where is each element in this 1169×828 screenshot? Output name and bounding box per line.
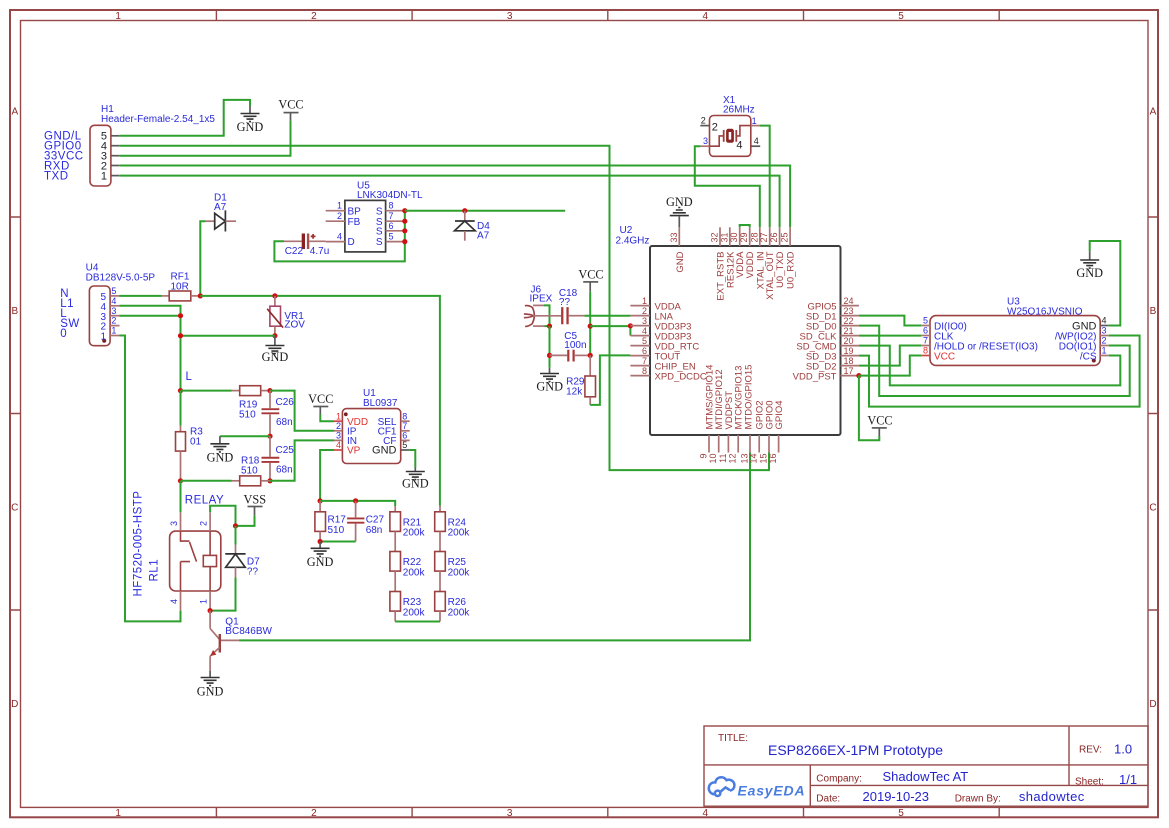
svg-text:23: 23 bbox=[844, 306, 854, 316]
U2 pin 33 GND bbox=[669, 227, 686, 272]
svg-text:3: 3 bbox=[169, 521, 179, 526]
svg-text:6: 6 bbox=[642, 346, 647, 356]
capacitor C25 68n bbox=[262, 436, 295, 481]
svg-text:30: 30 bbox=[729, 232, 739, 242]
ground GND (VR1) bbox=[262, 336, 289, 364]
power flag VCC (RF) bbox=[578, 268, 603, 292]
junction VR1 bottom bbox=[272, 333, 277, 338]
svg-text:7: 7 bbox=[642, 356, 647, 366]
svg-text:22: 22 bbox=[844, 316, 854, 326]
U3 pin 2 DO(IO1) bbox=[1059, 336, 1109, 353]
junction VCC VDD3P3 bbox=[588, 324, 593, 329]
svg-text:C22: C22 bbox=[285, 246, 304, 257]
svg-text:VP: VP bbox=[347, 446, 361, 457]
junction RF1 out bbox=[198, 293, 203, 298]
svg-text:20: 20 bbox=[844, 336, 854, 346]
svg-text:1/1: 1/1 bbox=[1119, 772, 1137, 787]
svg-text:4.7u: 4.7u bbox=[310, 246, 329, 257]
U4 pin 2 bbox=[100, 316, 119, 333]
wire GND row to VR1 bbox=[181, 335, 275, 337]
svg-text:29: 29 bbox=[739, 232, 749, 242]
svg-text:IPEX: IPEX bbox=[530, 294, 553, 305]
svg-text:510: 510 bbox=[241, 466, 258, 477]
U2 pin 13 MTDO/GPIO15 bbox=[740, 365, 755, 464]
capacitor C26 68n bbox=[262, 391, 295, 437]
wire U4 pin1 to relay pin4 loop bbox=[120, 336, 181, 622]
resistor R22 200k bbox=[390, 531, 426, 578]
svg-text:11: 11 bbox=[718, 454, 728, 463]
svg-text:BC846BW: BC846BW bbox=[225, 626, 272, 637]
svg-text:8: 8 bbox=[402, 411, 407, 421]
svg-text:GND: GND bbox=[262, 350, 289, 364]
svg-text:8: 8 bbox=[923, 346, 928, 356]
wire VCC to U1 pin1 bbox=[320, 415, 334, 422]
wire R18 to U1 pin3 bbox=[270, 440, 334, 480]
resistor RF1 10R bbox=[162, 272, 201, 301]
X1 pin 4 bbox=[736, 136, 760, 151]
U1 pin 3 IN bbox=[334, 431, 357, 448]
wire U5 pin8 to D4 row bbox=[405, 210, 565, 212]
U2 pin 15 GPIO0 bbox=[759, 400, 776, 463]
svg-text:C: C bbox=[1149, 503, 1156, 514]
junction L row bbox=[178, 388, 183, 393]
junction VP node R17 bbox=[318, 498, 323, 503]
capacitor C22 4.7u bbox=[284, 234, 329, 258]
svg-text:7: 7 bbox=[402, 421, 407, 431]
J6 feed lead bbox=[533, 315, 561, 317]
svg-text:VCC: VCC bbox=[867, 414, 892, 428]
wire U3 pin4 to GND bbox=[1090, 241, 1121, 326]
svg-text:EasyEDA: EasyEDA bbox=[738, 783, 806, 799]
svg-text:XPD_DCDC: XPD_DCDC bbox=[655, 371, 707, 382]
wire SD_D1 to DI bbox=[859, 316, 921, 326]
wire C26 bottom to GND bbox=[220, 435, 270, 437]
svg-text:2: 2 bbox=[712, 122, 718, 134]
svg-text:LNK304DN-TL: LNK304DN-TL bbox=[357, 190, 423, 201]
svg-text:510: 510 bbox=[328, 525, 345, 536]
svg-text:2: 2 bbox=[311, 808, 317, 819]
U2 pin 3 VDD3P3 bbox=[630, 316, 691, 333]
svg-text:200k: 200k bbox=[403, 567, 426, 578]
wire TXD long bbox=[119, 176, 779, 228]
wire SD_D0 to DO loop bbox=[859, 326, 1130, 396]
svg-text:D: D bbox=[11, 699, 18, 710]
wire Q1 base to U2 pin13 bbox=[239, 453, 750, 641]
wire C27 bottom to R17 bottom bbox=[320, 541, 356, 543]
svg-text:2: 2 bbox=[337, 211, 342, 221]
svg-text:2: 2 bbox=[311, 11, 317, 22]
svg-text:1: 1 bbox=[115, 808, 121, 819]
junction L vertical at GND row bbox=[178, 333, 183, 338]
frame column ticks top bbox=[216, 10, 999, 21]
wire VDD_PST to U3 VCC bbox=[859, 356, 921, 376]
U2 pin 30 VDDA bbox=[729, 227, 746, 278]
svg-text:2: 2 bbox=[198, 521, 208, 526]
U2 pin 7 CHIP_EN bbox=[630, 356, 695, 373]
svg-text:3: 3 bbox=[111, 306, 116, 316]
svg-text:01: 01 bbox=[190, 437, 202, 448]
svg-text:U0_RXD: U0_RXD bbox=[786, 251, 797, 289]
junction VSS node bbox=[233, 523, 238, 528]
connector U4 DB128V-5.0-5P bbox=[86, 263, 156, 346]
junction J6 shield bbox=[547, 324, 552, 329]
svg-text:GND: GND bbox=[207, 450, 234, 464]
svg-text:3: 3 bbox=[703, 136, 708, 146]
H1 pin 5 bbox=[101, 131, 119, 143]
diode D1 bbox=[206, 192, 236, 231]
svg-text:12k: 12k bbox=[566, 387, 583, 398]
U5 pin 1 BP bbox=[326, 201, 361, 218]
wire U4 pin4+pin3 to vertical bbox=[120, 306, 181, 391]
svg-text:1: 1 bbox=[642, 296, 647, 306]
svg-text:REV:: REV: bbox=[1079, 745, 1102, 756]
svg-text:4: 4 bbox=[703, 808, 709, 819]
svg-text:Date:: Date: bbox=[816, 794, 840, 805]
svg-text:5: 5 bbox=[923, 316, 928, 326]
junction U5 pin5 bbox=[402, 239, 407, 244]
svg-text:200k: 200k bbox=[448, 607, 471, 618]
svg-text:4: 4 bbox=[169, 599, 179, 604]
U2 pin 20 SD_CMD bbox=[796, 336, 859, 353]
wire GPIO0 long bbox=[119, 146, 769, 470]
svg-text:S: S bbox=[376, 237, 383, 248]
svg-text:3: 3 bbox=[336, 431, 341, 441]
U2 pin 6 TOUT bbox=[630, 346, 680, 363]
U1 pin 5 GND bbox=[372, 440, 410, 457]
svg-text:4: 4 bbox=[754, 136, 759, 146]
svg-text:VDD_PST: VDD_PST bbox=[793, 371, 837, 382]
svg-text:26MHz: 26MHz bbox=[723, 104, 755, 115]
wire VDDA-VDDD bridge bbox=[740, 225, 750, 227]
capacitor C18 ?? bbox=[559, 288, 584, 324]
wire J6 shield to GND column bbox=[544, 305, 550, 326]
svg-text:24: 24 bbox=[844, 296, 854, 306]
frame column ticks bottom bbox=[216, 807, 999, 817]
ground GND (Q1) bbox=[197, 671, 224, 699]
wire VCC vertical to C5 bbox=[589, 292, 591, 356]
svg-text:25: 25 bbox=[780, 232, 790, 242]
wire ladder bottom join bbox=[395, 621, 440, 623]
capacitor C27 68n bbox=[347, 501, 384, 542]
junction R19 out bbox=[267, 388, 272, 393]
svg-text:shadowtec: shadowtec bbox=[1019, 789, 1085, 804]
svg-text:1: 1 bbox=[752, 116, 757, 126]
U4 pin 5 bbox=[100, 286, 119, 303]
resistor R29 12k bbox=[566, 355, 595, 405]
resistor R18 510 bbox=[181, 455, 271, 485]
svg-text:VCC: VCC bbox=[308, 392, 333, 406]
U1 pin 1 VDD bbox=[334, 411, 368, 428]
wire GND column J6 bbox=[549, 326, 551, 368]
U1 pin 8 SEL bbox=[378, 411, 410, 428]
svg-text:510: 510 bbox=[239, 409, 256, 420]
svg-text:GND: GND bbox=[197, 684, 224, 698]
U5 pin 2 FB bbox=[326, 211, 361, 228]
U2 pin 24 GPIO5 bbox=[807, 296, 858, 313]
U3 pin 1 /CS bbox=[1080, 346, 1109, 363]
U2 pin 32 EXT_RSTB bbox=[710, 227, 727, 300]
svg-text:0: 0 bbox=[60, 328, 67, 340]
frame column numbers top bbox=[115, 11, 904, 22]
svg-text:5: 5 bbox=[389, 232, 394, 242]
svg-text:6: 6 bbox=[923, 326, 928, 336]
wire R19 to U1 pin2 bbox=[270, 391, 334, 431]
svg-text:DB128V-5.0-5P: DB128V-5.0-5P bbox=[86, 272, 156, 283]
U4 pin 4 bbox=[100, 296, 119, 313]
wire D1 anode branch bbox=[200, 221, 205, 296]
svg-text:12: 12 bbox=[728, 454, 738, 464]
wire relay pin3 up bbox=[180, 481, 182, 513]
wire U1 pin4 to VP row bbox=[320, 450, 334, 501]
wire VP row bbox=[320, 501, 395, 506]
U5 pin 6 S bbox=[376, 221, 405, 238]
resistor R23 200k bbox=[390, 571, 426, 621]
svg-text:68n: 68n bbox=[276, 465, 293, 476]
U4 pin 1 bbox=[100, 326, 119, 343]
EasyEDA logo cloud bbox=[709, 777, 735, 796]
wire VDD_PST to VCC flag bbox=[859, 376, 879, 441]
wire H1 pin5 to GND bbox=[119, 100, 250, 136]
svg-text:5: 5 bbox=[898, 11, 904, 22]
svg-text:4: 4 bbox=[336, 440, 341, 450]
resistor R21 200k bbox=[390, 506, 426, 539]
svg-text:68n: 68n bbox=[276, 417, 293, 428]
svg-text:2019-10-23: 2019-10-23 bbox=[863, 789, 930, 804]
svg-text:17: 17 bbox=[844, 366, 854, 376]
resistor R25 200k bbox=[435, 531, 471, 578]
svg-text:14: 14 bbox=[749, 454, 759, 464]
resistor R19 510 bbox=[232, 386, 271, 421]
svg-text:27: 27 bbox=[759, 232, 769, 242]
IC U1 BL0937 bbox=[342, 388, 400, 463]
U2 pin 10 MTDI/GPIO12 bbox=[708, 369, 725, 463]
svg-text:FB: FB bbox=[348, 217, 361, 228]
svg-text:1: 1 bbox=[337, 201, 342, 211]
U2 pin 29 VDDD bbox=[739, 227, 756, 278]
wire SD_CLK to CLK bbox=[859, 335, 921, 337]
svg-text:GND: GND bbox=[237, 120, 264, 134]
ground GND (U3) bbox=[1076, 251, 1103, 280]
svg-text:4: 4 bbox=[1102, 316, 1107, 326]
U2 pin 4 VDD3P3 bbox=[630, 326, 691, 343]
U2 pin 16 GPIO4 bbox=[768, 400, 785, 463]
frame row letters right bbox=[1149, 107, 1156, 711]
X1 pin 2 bbox=[700, 115, 718, 133]
svg-text:200k: 200k bbox=[448, 528, 471, 539]
RL1 pin 4 bbox=[169, 591, 181, 611]
svg-text:GND: GND bbox=[402, 476, 429, 490]
svg-text:B: B bbox=[1150, 306, 1157, 317]
svg-text:200k: 200k bbox=[403, 607, 426, 618]
wire SD_D3 to WP loop bbox=[859, 336, 1140, 407]
svg-text:2: 2 bbox=[1102, 336, 1107, 346]
svg-text:15: 15 bbox=[759, 454, 769, 464]
U1 pin 2 IP bbox=[334, 421, 357, 438]
wire node to D7 cathode bbox=[235, 526, 237, 545]
junction U5 pin8 bbox=[402, 208, 407, 213]
svg-text:A: A bbox=[11, 107, 18, 118]
U2 pin 17 VDD_PST bbox=[793, 366, 859, 383]
svg-text:1: 1 bbox=[100, 332, 106, 343]
svg-text:RL1: RL1 bbox=[149, 559, 161, 582]
junction C26 bottom bbox=[267, 434, 272, 439]
U2 pin 19 SD_D3 bbox=[806, 346, 859, 363]
junction C27 top bbox=[353, 498, 358, 503]
U2 pin 26 U0_TXD bbox=[769, 227, 786, 288]
svg-text:31: 31 bbox=[719, 232, 729, 242]
ground GND (C26) bbox=[207, 436, 234, 464]
wire L row to R19 bbox=[181, 390, 232, 392]
transistor Q1 BC846BW bbox=[210, 611, 272, 671]
wire SD_CMD to CS loop bbox=[859, 346, 1120, 386]
junction VDD_PST bbox=[856, 373, 861, 378]
wire R29 bottom loop to TOUT bbox=[590, 355, 630, 405]
svg-text:BL0937: BL0937 bbox=[363, 398, 398, 409]
svg-text:3: 3 bbox=[642, 316, 647, 326]
svg-text:5: 5 bbox=[111, 286, 116, 296]
svg-text:R29: R29 bbox=[566, 376, 585, 387]
vertical wire L to R3 bbox=[180, 391, 182, 426]
U5 pin 7 S bbox=[376, 211, 405, 228]
U2 pin 8 XPD_DCDC bbox=[630, 366, 706, 383]
U2 pin 23 SD_D1 bbox=[806, 306, 859, 323]
title block box bbox=[704, 726, 1148, 806]
svg-text:Drawn By:: Drawn By: bbox=[955, 794, 1001, 805]
svg-text:GPIO4: GPIO4 bbox=[774, 400, 785, 429]
svg-text:Company:: Company: bbox=[816, 774, 862, 785]
U2 pin 2 LNA bbox=[630, 306, 673, 323]
svg-text:32: 32 bbox=[710, 232, 720, 242]
power flag VSS bbox=[244, 492, 267, 515]
svg-text:26: 26 bbox=[769, 232, 779, 242]
U2 pin 22 SD_D0 bbox=[806, 316, 859, 333]
svg-text:??: ?? bbox=[247, 566, 259, 577]
junction VR1 top bbox=[272, 293, 277, 298]
junction D4 bbox=[462, 208, 467, 213]
svg-text:2.4GHz: 2.4GHz bbox=[616, 236, 650, 247]
relay RL1 HF7520-005-HSTP bbox=[133, 491, 221, 597]
svg-text:Sheet:: Sheet: bbox=[1075, 777, 1104, 788]
U3 pin 3 /WP(IO2) bbox=[1055, 326, 1109, 343]
svg-text:10: 10 bbox=[708, 454, 718, 464]
svg-text:/CS: /CS bbox=[1080, 351, 1097, 362]
wire SD_D2 to HOLD bbox=[859, 346, 921, 366]
U3 pin 6 CLK bbox=[921, 326, 953, 343]
junction relay pin1 bbox=[208, 608, 213, 613]
svg-text:GND: GND bbox=[1076, 266, 1103, 280]
svg-text:ESP8266EX-1PM Prototype: ESP8266EX-1PM Prototype bbox=[768, 742, 943, 758]
wire C18 to U2 LNA bbox=[584, 315, 630, 317]
svg-text:C25: C25 bbox=[276, 445, 295, 456]
svg-text:18: 18 bbox=[844, 356, 854, 366]
svg-text:1: 1 bbox=[101, 170, 107, 182]
U3 pin 4 GND bbox=[1072, 316, 1109, 333]
wire X1 pin3 to XTAL_IN bbox=[695, 146, 760, 227]
svg-text:C: C bbox=[11, 503, 18, 514]
ground GND (U2 top, flipped) bbox=[666, 195, 693, 227]
antenna J6 IPEX bbox=[524, 284, 553, 326]
U2 pin 5 VDD_RTC bbox=[630, 336, 699, 353]
svg-text:TXD: TXD bbox=[44, 170, 69, 182]
wire D7 anode to relay pin1 bbox=[210, 577, 235, 610]
U5 pin 4 D bbox=[326, 232, 355, 249]
svg-text:TITLE:: TITLE: bbox=[718, 733, 748, 744]
svg-text:ShadowTec AT: ShadowTec AT bbox=[883, 769, 969, 784]
ground GND (H1) bbox=[237, 106, 264, 134]
svg-text:68n: 68n bbox=[366, 525, 383, 536]
wire VCC to 33VCC row bbox=[119, 121, 290, 156]
svg-text:Header-Female-2.54_1x5: Header-Female-2.54_1x5 bbox=[101, 114, 215, 125]
U2 pin 21 SD_CLK bbox=[800, 326, 859, 343]
RL1 pin 1 bbox=[198, 591, 210, 611]
U2 pin 18 SD_D2 bbox=[806, 356, 859, 373]
svg-text:10R: 10R bbox=[171, 282, 189, 293]
svg-text:7: 7 bbox=[389, 211, 394, 221]
svg-text:1.0: 1.0 bbox=[1114, 742, 1132, 757]
svg-text:33: 33 bbox=[669, 232, 679, 242]
U2 pin 14 GPIO2 bbox=[749, 400, 766, 463]
svg-text:1: 1 bbox=[115, 11, 121, 22]
junction VDD3P3 stub bbox=[628, 323, 633, 328]
wire RXD long bbox=[119, 166, 790, 228]
junction U5 pin7 bbox=[402, 219, 407, 224]
wire U4 pin5 to RF1 bbox=[120, 295, 162, 297]
svg-text:2: 2 bbox=[336, 421, 341, 431]
svg-text:GND: GND bbox=[666, 195, 693, 209]
svg-text:A7: A7 bbox=[477, 231, 490, 242]
junction U5 pin6 bbox=[402, 228, 407, 233]
power flag VCC (U1) bbox=[308, 392, 333, 415]
power flag VCC (33VCC) bbox=[278, 98, 303, 121]
svg-text:VSS: VSS bbox=[244, 492, 267, 506]
svg-text:VCC: VCC bbox=[578, 268, 603, 282]
svg-text:3: 3 bbox=[507, 11, 513, 22]
svg-text:100n: 100n bbox=[564, 340, 586, 351]
wire U1 pin5 to GND bbox=[410, 450, 416, 468]
svg-text:8: 8 bbox=[642, 366, 647, 376]
svg-text:5: 5 bbox=[642, 336, 647, 346]
diode D4 bbox=[455, 211, 491, 242]
ground GND (J6) bbox=[536, 368, 563, 394]
U2 pin 25 U0_RXD bbox=[780, 227, 797, 289]
junction pin3 vertical bbox=[178, 313, 183, 318]
frame row ticks left bbox=[10, 217, 21, 610]
svg-text:D: D bbox=[348, 237, 355, 248]
resistor R24 200k bbox=[435, 506, 471, 539]
U1 pin 6 CF bbox=[383, 431, 410, 448]
svg-text:BP: BP bbox=[348, 206, 362, 217]
U5 pin 5 S bbox=[376, 232, 405, 249]
U1 pin 7 CF1 bbox=[378, 421, 410, 438]
svg-text:2: 2 bbox=[701, 115, 706, 125]
svg-text:A: A bbox=[1150, 107, 1157, 118]
svg-text:28: 28 bbox=[749, 232, 759, 242]
svg-text:4: 4 bbox=[642, 326, 647, 336]
resistor R17 510 bbox=[315, 501, 346, 542]
junction C5 left bbox=[547, 353, 552, 358]
junction R18 left bbox=[178, 478, 183, 483]
svg-text:VCC: VCC bbox=[278, 98, 303, 112]
svg-text:16: 16 bbox=[768, 454, 778, 464]
svg-text:D: D bbox=[1149, 699, 1156, 710]
svg-text:1: 1 bbox=[198, 599, 208, 604]
U5 pin 8 S bbox=[376, 201, 405, 218]
wire U4 pin3 bbox=[120, 315, 181, 317]
svg-text:4: 4 bbox=[111, 296, 116, 306]
svg-text:MTDO/GPIO15: MTDO/GPIO15 bbox=[744, 365, 755, 430]
wire U5 source pins tie bbox=[274, 211, 404, 262]
svg-text:19: 19 bbox=[844, 346, 854, 356]
